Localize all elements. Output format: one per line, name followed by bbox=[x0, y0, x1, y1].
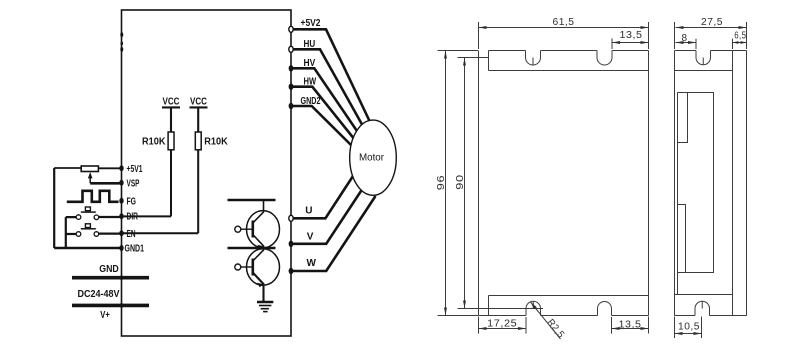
svg-text:VCC: VCC bbox=[163, 97, 180, 108]
svg-text:DC24-48V: DC24-48V bbox=[78, 289, 120, 300]
svg-text:W: W bbox=[307, 258, 317, 269]
svg-text:VCC: VCC bbox=[190, 97, 207, 108]
svg-text:17,25: 17,25 bbox=[487, 319, 517, 330]
svg-text:V: V bbox=[307, 232, 314, 243]
svg-text:13,5: 13,5 bbox=[620, 30, 643, 41]
svg-text:HV: HV bbox=[304, 58, 316, 69]
svg-text:R10K: R10K bbox=[204, 137, 228, 148]
svg-text:DIR: DIR bbox=[127, 211, 139, 222]
svg-text:GND1: GND1 bbox=[125, 244, 145, 255]
svg-text:Motor: Motor bbox=[359, 153, 385, 164]
svg-text:8: 8 bbox=[681, 33, 687, 44]
svg-text:V+: V+ bbox=[100, 310, 110, 321]
svg-text:61,5: 61,5 bbox=[553, 17, 575, 28]
svg-text:+5V1: +5V1 bbox=[127, 164, 143, 175]
svg-text:90: 90 bbox=[455, 174, 466, 190]
svg-text:U: U bbox=[305, 206, 312, 217]
svg-text:13,5: 13,5 bbox=[619, 319, 642, 330]
svg-text:GND2: GND2 bbox=[301, 96, 321, 107]
svg-text:HU: HU bbox=[304, 39, 316, 50]
svg-text:GND: GND bbox=[99, 264, 119, 275]
svg-text:VSP: VSP bbox=[127, 178, 140, 189]
svg-text:R10K: R10K bbox=[142, 137, 166, 148]
svg-text:96: 96 bbox=[436, 175, 447, 191]
svg-text:FG: FG bbox=[127, 196, 137, 207]
svg-text:6,5: 6,5 bbox=[734, 30, 746, 41]
svg-text:EN: EN bbox=[127, 229, 136, 240]
svg-text:HW: HW bbox=[304, 77, 317, 88]
svg-text:27,5: 27,5 bbox=[701, 17, 723, 28]
svg-text:+5V2: +5V2 bbox=[301, 18, 321, 29]
svg-text:10,5: 10,5 bbox=[678, 322, 700, 333]
